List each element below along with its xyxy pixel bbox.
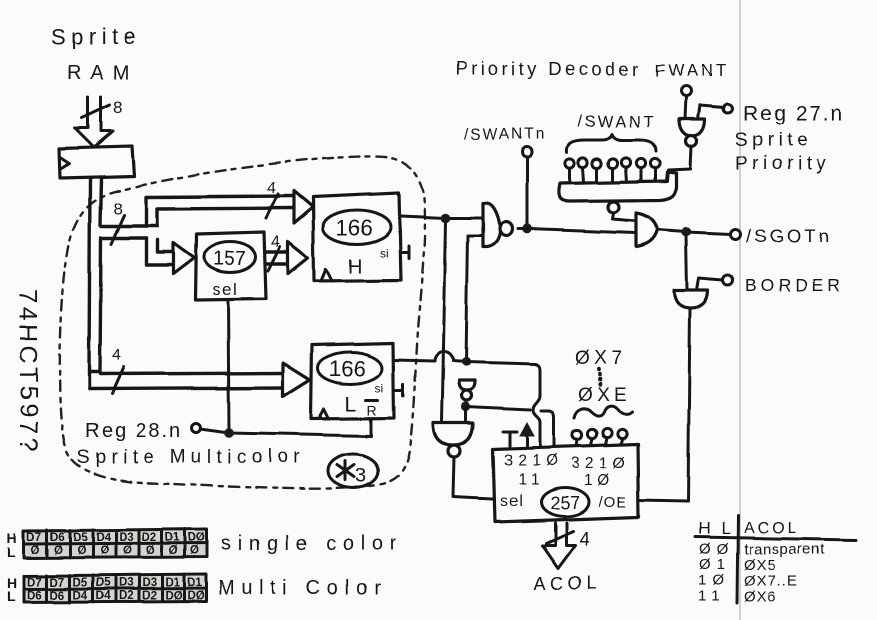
svg-text:/SWANTn: /SWANTn xyxy=(464,126,546,143)
wire inverter out to mux input 0 with hop xyxy=(466,407,554,445)
bus 257 output to ACOL xyxy=(542,523,575,568)
single color L row bits xyxy=(31,545,199,557)
multi color H row bits xyxy=(27,577,202,589)
and gate U12 border xyxy=(674,290,708,308)
bubble nand U8 xyxy=(448,445,460,457)
svg-text:D2: D2 xyxy=(142,532,157,544)
svg-text:Sprite: Sprite xyxy=(735,130,812,151)
svg-text:Multi Color: Multi Color xyxy=(218,577,387,599)
wire U8 output to 257 sel xyxy=(453,457,492,499)
svg-text:si: si xyxy=(380,246,389,260)
svg-text:ØX7..E: ØX7..E xyxy=(744,573,798,590)
svg-text:D4: D4 xyxy=(96,590,111,602)
svg-text:Ø: Ø xyxy=(190,545,199,557)
257 label ellipse xyxy=(541,488,589,517)
svg-text:D2: D2 xyxy=(142,590,157,602)
wire 166 H output xyxy=(401,216,482,218)
asterisk 3 label xyxy=(337,461,354,480)
svg-text:H: H xyxy=(348,256,362,278)
latch register U1 xyxy=(59,146,134,178)
svg-text:/SGOTn: /SGOTn xyxy=(746,225,832,246)
bus arrowhead into 166 L xyxy=(283,363,310,397)
terminal Reg 27.n xyxy=(724,104,733,113)
svg-text:L: L xyxy=(345,393,357,416)
si input tick 166 L xyxy=(394,384,403,396)
acol table divider xyxy=(737,516,738,604)
mux 257 U13 xyxy=(493,444,639,522)
mux 157 U2 xyxy=(195,232,266,300)
bus riser and top bus to 166 H input A xyxy=(146,196,294,226)
si input tick 166 H xyxy=(401,246,409,258)
wire U12 output down to 257 /OE xyxy=(638,308,690,501)
svg-text:RAM: RAM xyxy=(67,62,138,84)
multi color L row bits xyxy=(27,590,204,602)
single color table grid xyxy=(24,529,207,558)
junction on Reg 28.n wire xyxy=(224,428,234,438)
bubble U10 xyxy=(686,136,697,147)
svg-text:Priority Decoder: Priority Decoder xyxy=(455,58,642,79)
svg-text:single color: single color xyxy=(221,533,403,555)
brace over swant inputs xyxy=(567,134,656,152)
wire U9 bubble to /SGOT or gate xyxy=(613,213,637,221)
svg-text:D3: D3 xyxy=(119,577,134,589)
paper scan fold line xyxy=(739,0,741,620)
svg-text:D7: D7 xyxy=(27,532,42,544)
wire junction up to 157 sel xyxy=(228,300,229,433)
svg-text:sel: sel xyxy=(212,280,238,299)
svg-text:DØ: DØ xyxy=(187,590,204,602)
svg-text:166: 166 xyxy=(329,356,366,381)
swant input stems xyxy=(570,167,655,183)
multi color table shading xyxy=(24,576,206,601)
wire U8 input from inverter junction xyxy=(465,407,468,423)
svg-text:DØ: DØ xyxy=(188,532,205,544)
terminal /SGOTn xyxy=(730,229,740,239)
arrow input (clock) xyxy=(520,423,534,436)
wire /SWANTn down xyxy=(526,157,529,229)
svg-text:Sprite Multicolor: Sprite Multicolor xyxy=(77,447,305,468)
bubble inverter U7 xyxy=(462,391,472,401)
svg-text:Ø1: Ø1 xyxy=(699,556,731,573)
terminal BORDER xyxy=(723,275,733,285)
slash 4 on ACOL bus xyxy=(546,531,573,543)
bus arrowhead into 166 H input A xyxy=(294,191,313,223)
svg-text:ØX5: ØX5 xyxy=(744,557,777,574)
svg-text:Ø: Ø xyxy=(146,545,155,557)
wire 166 L output with hop over H line xyxy=(394,352,466,362)
swant input terminals xyxy=(565,158,574,167)
svg-text:ØX6: ØX6 xyxy=(744,589,777,606)
svg-text:D2: D2 xyxy=(119,590,134,602)
svg-text:74HCT597?: 74HCT597? xyxy=(14,289,42,454)
svg-text:3: 3 xyxy=(355,465,366,487)
svg-text:Reg 27.n: Reg 27.n xyxy=(743,102,844,125)
wire /SGOT down to border gate xyxy=(686,236,687,290)
svg-text:8: 8 xyxy=(113,199,122,218)
bus arrowhead into 166 H input B xyxy=(288,242,308,274)
x3 circle xyxy=(328,454,378,488)
svg-text:D3: D3 xyxy=(142,577,157,589)
svg-text:157: 157 xyxy=(213,248,246,270)
svg-text:ACOL: ACOL xyxy=(744,520,800,537)
junction inverter out xyxy=(461,402,470,411)
bus arrowhead into 157 xyxy=(173,243,194,274)
svg-text:transparent: transparent xyxy=(744,541,826,558)
phase input stems xyxy=(576,438,622,447)
svg-text:/OE: /OE xyxy=(599,494,628,511)
svg-text:4: 4 xyxy=(579,529,590,550)
svg-text:4: 4 xyxy=(271,234,280,251)
svg-text:D4: D4 xyxy=(73,590,88,602)
gate U10 FWANT priority xyxy=(679,119,705,136)
svg-text:8: 8 xyxy=(113,98,122,117)
acol table header underline xyxy=(695,537,856,540)
wire U10 output into U9 xyxy=(667,146,691,181)
junction /SGOT xyxy=(681,227,691,237)
svg-text:321Ø: 321Ø xyxy=(571,455,630,472)
svg-text:D6: D6 xyxy=(27,590,42,602)
svg-text:R: R xyxy=(367,402,377,418)
wire nand U6 input 2 xyxy=(466,236,483,362)
svg-text:H L: H L xyxy=(698,519,733,538)
svg-text:Ø: Ø xyxy=(31,545,40,557)
svg-text:D7: D7 xyxy=(27,577,42,589)
shift register 166 L U5 xyxy=(311,343,394,419)
single color table shading xyxy=(24,531,207,557)
svg-text:D5: D5 xyxy=(96,577,111,589)
clock mark 166 L xyxy=(319,409,329,419)
shift register 166 H U4 xyxy=(313,193,401,281)
157 label ellipse xyxy=(204,242,256,273)
slash 4 on top bus xyxy=(266,194,278,218)
svg-text:1Ø: 1Ø xyxy=(698,572,730,589)
nand gate U8 (sel) xyxy=(433,423,473,445)
svg-text:166: 166 xyxy=(336,215,373,240)
svg-text:DØ: DØ xyxy=(165,590,182,602)
bubble or U9 xyxy=(609,202,620,213)
svg-text:sel: sel xyxy=(500,493,523,510)
svg-text:321Ø: 321Ø xyxy=(504,452,563,469)
bus drop to 157 input xyxy=(146,238,173,265)
terminal FWANT xyxy=(681,86,691,96)
slash 4 on bus to 166 L xyxy=(112,367,124,394)
single color H row bits xyxy=(27,532,205,544)
svg-text:11: 11 xyxy=(698,588,726,605)
svg-text:257: 257 xyxy=(550,493,580,513)
dashed datapath group outline (x3 block) xyxy=(60,156,426,488)
svg-text:4: 4 xyxy=(112,347,121,364)
svg-text:4: 4 xyxy=(267,180,276,197)
svg-text:Reg 28.n: Reg 28.n xyxy=(85,420,182,442)
svg-text:Ø: Ø xyxy=(77,545,86,557)
svg-text:FWANT: FWANT xyxy=(655,61,730,80)
svg-text:11: 11 xyxy=(518,471,544,488)
wire U10 input Reg 27.n xyxy=(698,105,724,119)
svg-text:L: L xyxy=(7,544,16,560)
svg-text:ØX7: ØX7 xyxy=(575,348,627,369)
wire H junction down to sel gate xyxy=(442,222,446,422)
wire L junction to mux input 1 xyxy=(466,362,540,445)
squiggle brace xyxy=(574,406,632,418)
tie-high T input xyxy=(503,432,517,446)
terminal /SWANTn xyxy=(522,147,532,157)
inverter U7 xyxy=(459,381,475,391)
166 H label ellipse xyxy=(323,210,391,244)
vertical data bus lower part and turn to 166 L xyxy=(89,240,283,389)
svg-text:D6: D6 xyxy=(50,590,65,602)
svg-text:D1: D1 xyxy=(165,532,180,544)
svg-text:Priority: Priority xyxy=(735,154,830,175)
svg-text:ACOL: ACOL xyxy=(534,573,601,593)
svg-text:ØXE: ØXE xyxy=(578,385,630,406)
slash 8 on branch bus xyxy=(111,215,124,244)
svg-text:D6: D6 xyxy=(50,532,65,544)
nand gate U6 (H,L) xyxy=(483,203,500,247)
multi color table grid xyxy=(24,574,206,602)
svg-text:L: L xyxy=(7,588,16,604)
latch clock mark xyxy=(60,157,69,169)
terminal Reg 28.n xyxy=(192,424,201,433)
or gate U11 /SGOT xyxy=(637,213,658,247)
svg-text:1Ø: 1Ø xyxy=(584,472,615,489)
clock mark 166 H xyxy=(321,269,332,281)
svg-text:Ø: Ø xyxy=(54,545,63,557)
svg-text:D3: D3 xyxy=(119,532,134,544)
svg-text:BORDER: BORDER xyxy=(745,275,844,295)
junction node H xyxy=(441,213,451,223)
svg-text:D4: D4 xyxy=(96,532,111,544)
bubble nand U6 xyxy=(500,222,513,236)
slash 8 on RAM bus xyxy=(82,105,110,118)
svg-text:Ø: Ø xyxy=(169,545,178,557)
junction /SWANT collect xyxy=(522,224,532,234)
wire to /SGOT or gate xyxy=(518,229,637,233)
wire border input xyxy=(697,278,723,290)
svg-text:D7: D7 xyxy=(50,577,65,589)
svg-text:D5: D5 xyxy=(73,532,88,544)
svg-text:D1: D1 xyxy=(187,577,202,589)
svg-text:Sprite: Sprite xyxy=(51,24,141,49)
dots ellipsis xyxy=(599,369,600,385)
svg-text:si: si xyxy=(375,381,384,395)
bus 157 to 166 H input B (4 bits) xyxy=(266,252,288,264)
or gate U9 wide 8-input xyxy=(559,172,676,201)
svg-text:Ø: Ø xyxy=(123,545,132,557)
wire FWANT down xyxy=(685,96,686,119)
wire Reg 28.n to R input and 157 sel xyxy=(200,419,371,436)
166 L label ellipse xyxy=(318,352,382,384)
wire U11 output to /SGOTn xyxy=(658,230,730,234)
svg-text:/SWANT: /SWANT xyxy=(577,113,656,131)
slash 4 on 157 output bus xyxy=(268,247,280,271)
svg-text:D1: D1 xyxy=(165,577,180,589)
branch bus (8 bits) from data bus xyxy=(101,226,157,238)
junction node L xyxy=(461,357,470,366)
bus arrow from Sprite RAM (8 bits) xyxy=(75,97,113,147)
vertical data bus from latch xyxy=(89,178,101,372)
svg-text:D5: D5 xyxy=(73,577,88,589)
svg-text:Ø: Ø xyxy=(100,545,109,557)
phase input terminals xyxy=(572,430,581,439)
